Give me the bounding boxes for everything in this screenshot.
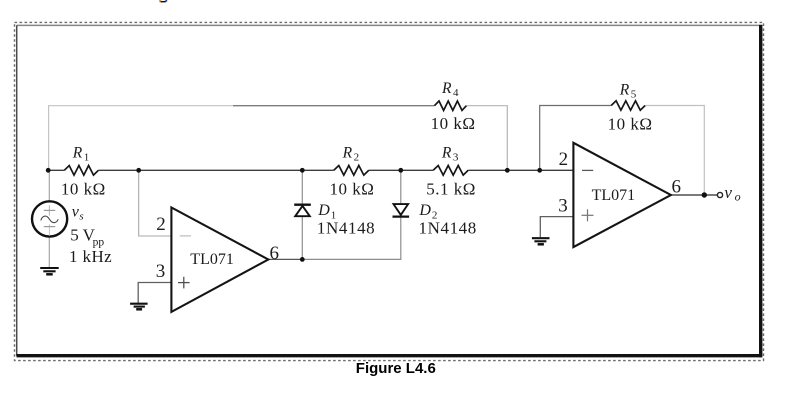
svg-text:R: R: [441, 144, 452, 161]
svg-text:2: 2: [156, 214, 166, 235]
svg-text:o: o: [735, 189, 741, 203]
svg-text:D: D: [317, 202, 330, 219]
svg-text:R: R: [342, 144, 353, 161]
svg-text:1N4148: 1N4148: [317, 218, 375, 237]
svg-text:R: R: [72, 145, 83, 162]
svg-text:3: 3: [558, 196, 568, 217]
svg-text:TL071: TL071: [592, 187, 636, 204]
svg-text:D: D: [418, 202, 431, 219]
svg-text:s: s: [79, 210, 83, 222]
svg-text:R: R: [619, 81, 630, 98]
svg-text:2: 2: [354, 151, 360, 163]
svg-text:v: v: [724, 183, 732, 202]
svg-text:5: 5: [631, 88, 637, 100]
svg-text:1: 1: [84, 152, 90, 164]
svg-text:2: 2: [559, 149, 569, 170]
svg-text:1 kHz: 1 kHz: [69, 247, 112, 266]
svg-text:6: 6: [672, 177, 682, 198]
svg-text:1N4148: 1N4148: [419, 218, 477, 237]
svg-text:TL071: TL071: [190, 251, 234, 268]
svg-text:3: 3: [453, 151, 459, 163]
svg-text:10 kΩ: 10 kΩ: [330, 179, 375, 198]
svg-text:10 kΩ: 10 kΩ: [608, 115, 653, 134]
svg-text:6: 6: [270, 243, 280, 264]
svg-text:R: R: [441, 80, 452, 97]
svg-text:10 kΩ: 10 kΩ: [431, 114, 476, 133]
svg-text:10 kΩ: 10 kΩ: [61, 180, 106, 199]
svg-text:4: 4: [453, 87, 459, 99]
svg-text:3: 3: [156, 261, 166, 282]
svg-text:5.1 kΩ: 5.1 kΩ: [426, 179, 476, 198]
svg-text:Figure L4.6: Figure L4.6: [356, 360, 436, 377]
